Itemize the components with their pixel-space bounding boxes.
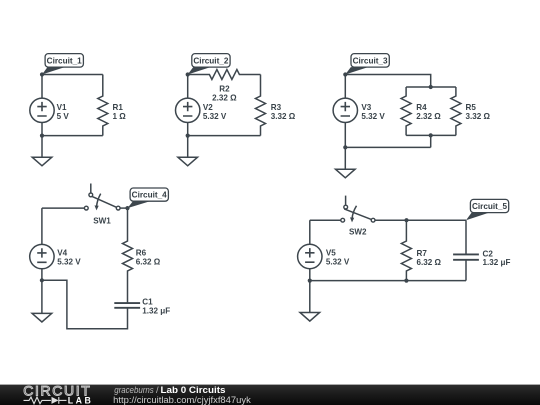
svg-text:R1: R1 [113, 103, 124, 112]
svg-text:V3: V3 [361, 103, 371, 112]
svg-text:V5: V5 [326, 249, 336, 258]
svg-text:R4: R4 [416, 103, 427, 112]
svg-text:V1: V1 [57, 103, 67, 112]
svg-text:C2: C2 [483, 249, 494, 258]
svg-text:Circuit_4: Circuit_4 [132, 191, 167, 200]
svg-text:5.32 V: 5.32 V [57, 257, 81, 266]
svg-text:5.32 V: 5.32 V [203, 112, 227, 121]
svg-text:1.32 μF: 1.32 μF [483, 258, 511, 267]
svg-text:Circuit_2: Circuit_2 [193, 56, 228, 65]
svg-text:Circuit_3: Circuit_3 [353, 56, 388, 65]
svg-text:6.32 Ω: 6.32 Ω [417, 258, 442, 267]
svg-text:R5: R5 [466, 103, 477, 112]
svg-text:3.32 Ω: 3.32 Ω [466, 112, 491, 121]
svg-text:R3: R3 [271, 103, 282, 112]
svg-text:5.32 V: 5.32 V [361, 112, 385, 121]
svg-text:6.32 Ω: 6.32 Ω [136, 257, 161, 266]
svg-text:R6: R6 [136, 249, 147, 258]
svg-text:Lab 0 Circuits: Lab 0 Circuits [161, 385, 226, 395]
svg-text:5.32 V: 5.32 V [326, 257, 350, 266]
svg-text:SW2: SW2 [349, 227, 367, 236]
svg-text:Circuit_1: Circuit_1 [47, 56, 82, 65]
svg-text:LAB: LAB [68, 395, 91, 405]
svg-text:3.32 Ω: 3.32 Ω [271, 112, 296, 121]
svg-text:2.32 Ω: 2.32 Ω [212, 94, 237, 103]
svg-text:5 V: 5 V [57, 112, 70, 121]
svg-text:SW1: SW1 [93, 216, 111, 225]
svg-text:R7: R7 [417, 249, 428, 258]
svg-text:graceburns: graceburns [114, 385, 154, 395]
svg-text:V2: V2 [203, 103, 213, 112]
svg-text:V4: V4 [57, 249, 67, 258]
svg-text:R2: R2 [219, 85, 230, 94]
svg-text:2.32 Ω: 2.32 Ω [416, 112, 441, 121]
svg-text:C1: C1 [142, 298, 153, 307]
svg-text:Circuit_5: Circuit_5 [472, 202, 507, 211]
svg-text:1.32 μF: 1.32 μF [142, 307, 170, 316]
svg-text:1 Ω: 1 Ω [113, 112, 127, 121]
svg-text:http://circuitlab.com/cjyjfxf8: http://circuitlab.com/cjyjfxf847uyk [113, 395, 251, 405]
svg-text:/: / [156, 385, 159, 395]
